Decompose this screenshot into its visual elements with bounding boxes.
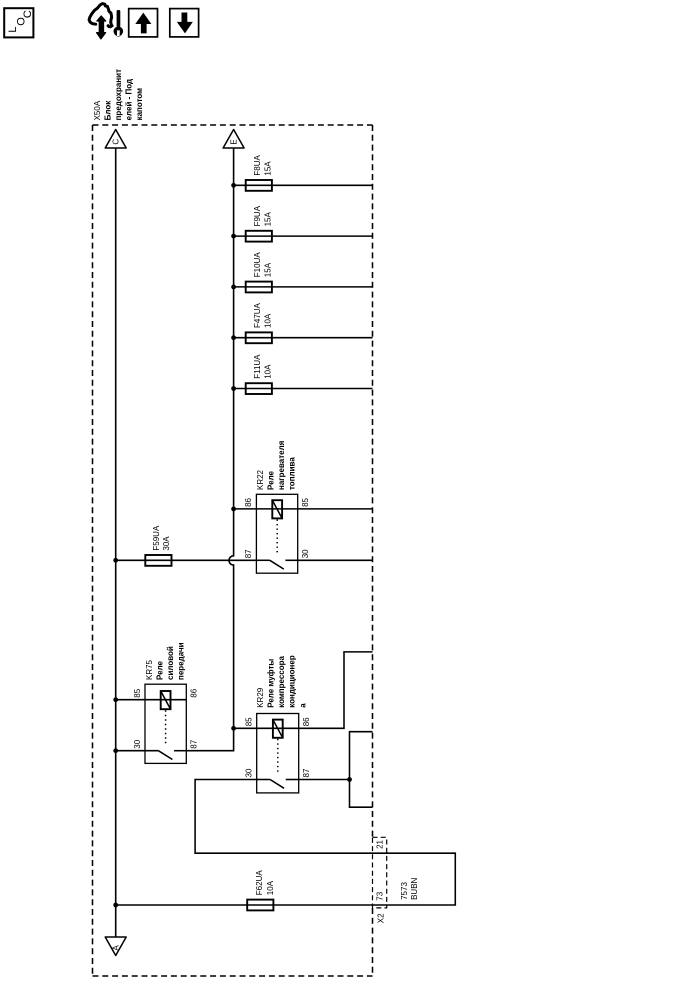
wire KR29.87 branch (vertical with two exits) (350, 732, 373, 808)
node A (triangle, bottom) (105, 937, 126, 956)
node junction E/F11UA (231, 386, 236, 391)
svg-text:KR75: KR75 (145, 659, 154, 680)
svg-text:15A: 15A (264, 161, 273, 176)
svg-text:Реле муфты: Реле муфты (267, 659, 276, 708)
pin labels KR75 (133, 688, 199, 748)
scroll up button (129, 9, 158, 37)
svg-text:F62UA: F62UA (255, 870, 264, 896)
relay KR22 box (256, 494, 297, 573)
svg-text:кондиционер: кондиционер (288, 655, 297, 708)
svg-text:87: 87 (190, 739, 199, 748)
node junction C/KR75.30 (113, 748, 118, 753)
node junction E/F47UA (231, 335, 236, 340)
KR29 switch (30-87) (257, 780, 299, 789)
fuse F8UA (246, 180, 272, 191)
wire KR29.86 to border (right, up, right) (299, 652, 373, 728)
svg-text:E: E (229, 139, 238, 144)
label KR29 Реле муфты компрессора кондиционера (256, 655, 307, 708)
node junction E/F9UA (231, 234, 236, 239)
wire F59UA feed (C bus to KR22 pin 87) (116, 559, 257, 561)
svg-text:30: 30 (245, 768, 254, 777)
KR29 armature link (dotted) (277, 739, 279, 775)
label F59UA 30A (152, 525, 171, 551)
svg-text:топлива: топлива (288, 457, 297, 490)
svg-text:87: 87 (302, 768, 311, 777)
svg-text:F47UA: F47UA (253, 302, 262, 328)
svg-text:F10UA: F10UA (253, 252, 262, 278)
wire KR29.87 to junction (299, 779, 350, 781)
wire KR75.85 from C bus (116, 699, 187, 701)
connector label X50A : Блок предохранителей - Под капотом (93, 69, 144, 120)
label F47UA 10A (253, 302, 273, 328)
node junction E/F10UA (231, 285, 236, 290)
wire E bus (vertical with hop over F59UA wire, ends at KR75 pin 87) (186, 148, 233, 751)
svg-text:X2: X2 (376, 913, 385, 923)
fuse F47UA wire (234, 337, 373, 339)
svg-text:10A: 10A (264, 364, 273, 379)
svg-text:KR22: KR22 (256, 469, 265, 490)
node junction E/KR29.85 (231, 726, 236, 731)
svg-text:предохранит: предохранит (114, 69, 123, 120)
svg-text:нагревателя: нагревателя (277, 440, 286, 490)
wire C bus (vertical) (115, 148, 117, 937)
fuse F9UA (246, 231, 272, 242)
svg-text:Реле: Реле (156, 660, 165, 680)
pan/location icon (car outline with double arrow and wrench) (89, 4, 123, 39)
label F9UA 15A (253, 205, 273, 226)
svg-text:C: C (22, 10, 34, 18)
wire KR75.30 from C bus (116, 750, 159, 752)
relay KR75 coil (161, 691, 171, 709)
node junction E/KR22.86 (231, 507, 236, 512)
svg-text:10A: 10A (266, 880, 275, 895)
svg-text:A: A (112, 945, 121, 951)
label KR75 Реле силовой передачи (145, 642, 186, 680)
svg-text:KR29: KR29 (256, 687, 265, 708)
svg-text:10A: 10A (264, 313, 273, 328)
wire KR22.30 to border (298, 559, 373, 561)
fuse block X50A boundary (dashed) (93, 125, 373, 976)
fuse F47UA (246, 332, 272, 343)
scroll down button (170, 9, 199, 37)
fuse F11UA wire (234, 388, 373, 390)
svg-text:7573: 7573 (400, 882, 409, 900)
label F62UA 10A (255, 870, 275, 896)
svg-text:30: 30 (301, 549, 310, 558)
relay KR75 box (145, 684, 186, 763)
svg-text:компрессора: компрессора (277, 655, 286, 707)
fuse F9UA wire (234, 235, 373, 237)
svg-text:F59UA: F59UA (152, 525, 161, 551)
svg-text:Блок: Блок (104, 100, 113, 121)
svg-text:15A: 15A (264, 212, 273, 227)
svg-text:85: 85 (133, 688, 142, 697)
LOC box (4, 8, 34, 37)
svg-text:87: 87 (244, 549, 253, 558)
svg-text:F9UA: F9UA (253, 205, 262, 226)
svg-text:передачи: передачи (177, 642, 186, 680)
label F8UA 15A (253, 154, 273, 175)
relay KR22 coil (272, 500, 282, 518)
label F10UA 15A (253, 252, 273, 278)
svg-text:L: L (7, 26, 19, 32)
svg-text:30A: 30A (162, 536, 171, 551)
svg-text:85: 85 (301, 497, 310, 506)
svg-text:21: 21 (375, 839, 384, 848)
wire KR29.85 from E bus (234, 727, 257, 729)
svg-text:C: C (112, 139, 121, 145)
svg-text:F11UA: F11UA (253, 354, 262, 379)
KR22 switch (87-30) (256, 560, 297, 569)
fuse F10UA wire (234, 286, 373, 288)
svg-text:BUBN: BUBN (410, 877, 419, 899)
relay KR29 coil (273, 720, 283, 738)
pin labels KR22 (244, 497, 310, 558)
fuse F11UA (246, 383, 272, 394)
svg-text:85: 85 (245, 717, 254, 726)
node C (triangle) (105, 130, 126, 149)
svg-text:Реле: Реле (266, 470, 275, 490)
svg-text:силовой: силовой (166, 646, 175, 680)
node junction KR29.87 (347, 777, 352, 782)
svg-text:елей - Под: елей - Под (124, 79, 133, 121)
KR75 armature link (dotted) (165, 710, 167, 746)
svg-text:X50A: X50A (93, 100, 102, 120)
label KR22 Реле нагревателя топлива (256, 440, 297, 490)
node junction E/F8UA (231, 183, 236, 188)
node junction C/F62UA (113, 903, 118, 908)
svg-text:капотом: капотом (135, 88, 144, 121)
KR22 armature link (dotted) (276, 520, 278, 556)
wire label 7573 BUBN (400, 877, 419, 899)
relay KR29 box (257, 714, 299, 793)
fuse F10UA (246, 282, 272, 293)
fuse F59UA (145, 555, 171, 566)
svg-text:86: 86 (302, 717, 311, 726)
svg-text:86: 86 (244, 497, 253, 506)
svg-text:30: 30 (133, 739, 142, 748)
connector X2 (dashed) (373, 837, 387, 908)
fuse F8UA wire (234, 184, 373, 186)
wire KR29.30 loop through X2 (21 out / 73 back) to F62UA (116, 780, 456, 906)
fuse F62UA (247, 900, 273, 911)
pin labels KR29 (245, 717, 312, 778)
node E (triangle) (223, 130, 244, 149)
svg-text:15A: 15A (264, 262, 273, 277)
node junction C/F59UA (113, 558, 118, 563)
wire KR22 coil row (86-85) (234, 508, 373, 510)
label F11UA 10A (253, 354, 273, 379)
svg-text:а: а (298, 703, 307, 708)
svg-text:86: 86 (190, 688, 199, 697)
node junction C/KR75.85 (113, 697, 118, 702)
wire KR29 coil row inside box (257, 727, 299, 729)
svg-text:F8UA: F8UA (253, 154, 262, 175)
KR75 switch (30-87) (158, 751, 186, 760)
svg-text:73: 73 (375, 891, 384, 900)
